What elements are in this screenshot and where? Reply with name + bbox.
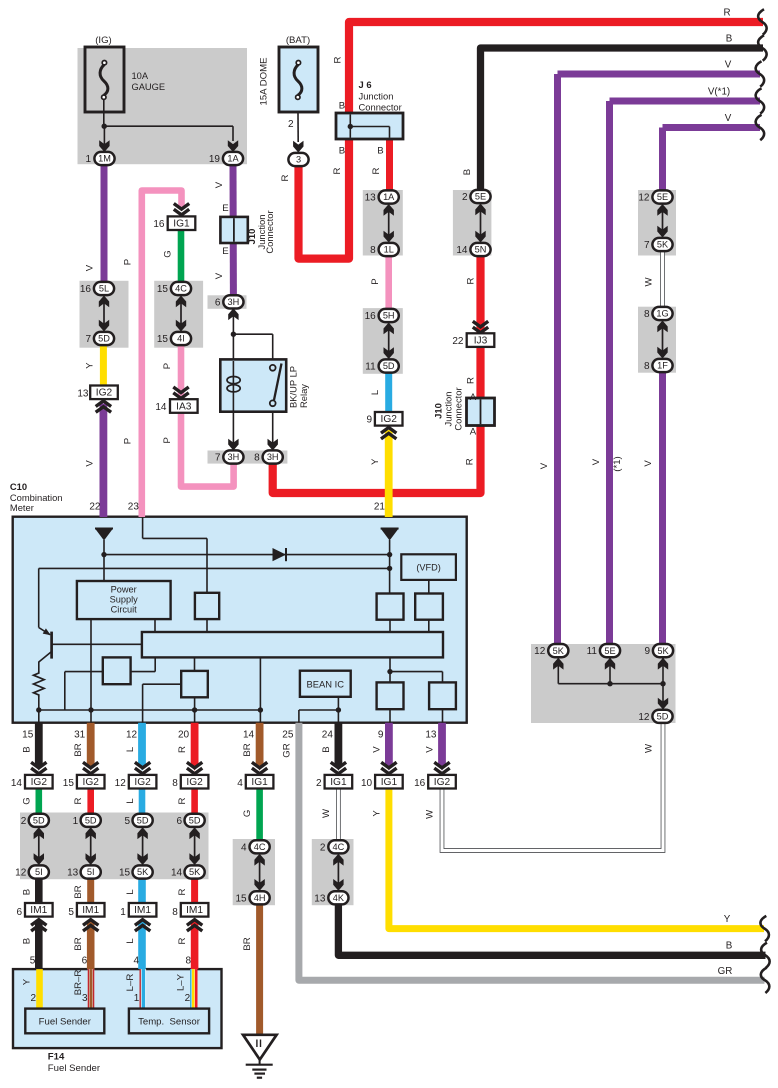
relay coil — [227, 361, 240, 413]
break squiggle wire V — [756, 61, 764, 86]
svg-text:IG2: IG2 — [31, 777, 48, 788]
fuel sender F14 box — [13, 969, 222, 1048]
label B top right — [726, 34, 733, 45]
svg-text:16: 16 — [414, 778, 426, 789]
connector box 13 IG2 — [90, 386, 118, 400]
svg-text:W: W — [425, 809, 436, 819]
label B below IM1 — [21, 938, 32, 944]
C10 box B — [415, 594, 443, 620]
label 13 at 5I/5K — [67, 868, 79, 879]
connector pair 5L/5D arrows — [99, 296, 109, 332]
C10 wire box F to pin 20 — [194, 697, 196, 722]
connector 8 3H — [263, 450, 283, 463]
break squiggle wire B bottom — [761, 943, 769, 968]
svg-text:B: B — [726, 34, 733, 45]
svg-text:BR–R: BR–R — [73, 970, 84, 996]
svg-text:IG2: IG2 — [380, 414, 397, 425]
label 5 at F14 pin — [30, 956, 36, 967]
svg-text:13: 13 — [425, 730, 437, 741]
wire fuse BAT to 3 — [293, 99, 303, 152]
chevron above 16 IG1 — [174, 204, 189, 215]
svg-text:P: P — [370, 278, 381, 284]
svg-text:5I: 5I — [87, 867, 95, 877]
connector 3 — [288, 153, 308, 166]
label P col IA3 — [162, 437, 173, 443]
wire V pin 13 to 16 IG2 — [438, 723, 446, 771]
svg-text:W: W — [321, 808, 332, 818]
connector box 4 IG1 — [246, 775, 274, 789]
svg-text:BK/UP LP: BK/UP LP — [288, 366, 299, 408]
svg-text:W: W — [644, 277, 655, 287]
label 21 pin — [374, 502, 386, 513]
label V top right 2 — [725, 113, 732, 124]
gray panel behind connector 5H/5D — [363, 308, 403, 374]
svg-text:IA3: IA3 — [176, 401, 192, 412]
label BR above IM1 — [73, 885, 84, 898]
svg-text:5D: 5D — [189, 816, 201, 826]
wire W loop from 16 IG2 to 12 5D — [442, 721, 663, 851]
connector 4 4C — [250, 840, 270, 853]
svg-text:5I: 5I — [35, 867, 43, 877]
wire W from 7 5K to 8 1G — [660, 249, 665, 310]
svg-text:L: L — [125, 746, 136, 752]
svg-text:10A: 10A — [132, 71, 149, 81]
label 6 at 5D — [177, 816, 183, 827]
svg-text:5D: 5D — [383, 361, 395, 371]
label BR&#8211;R inside F14 — [73, 970, 84, 996]
connector pair 4C/4I arrows — [176, 296, 186, 332]
svg-text:R: R — [333, 56, 344, 63]
C10 transistor Q1 — [39, 568, 52, 671]
svg-text:9: 9 — [378, 730, 384, 741]
wire BR pin 31 to 15 IG2 — [87, 723, 95, 771]
connector pair 5E/5K right arrows — [657, 204, 667, 238]
svg-text:BR: BR — [73, 885, 84, 898]
label pin 12 — [126, 730, 138, 741]
svg-text:B: B — [377, 146, 383, 157]
connector pair 1A/1L arrows — [384, 204, 394, 243]
label 13 at 4K — [314, 894, 326, 905]
svg-text:5K: 5K — [657, 646, 669, 656]
svg-text:5D: 5D — [657, 712, 669, 722]
connector box 14 IG2 — [25, 775, 53, 789]
connector 2 5D — [29, 814, 49, 827]
svg-text:W: W — [644, 743, 655, 753]
label B below pin — [21, 746, 32, 752]
connector 7 5D — [94, 332, 114, 345]
C10 stub PSC to main bus box — [154, 619, 156, 632]
C10 resistor — [34, 671, 45, 697]
label 13 at 1A — [365, 193, 377, 204]
label BK/UP LP Relay — [288, 366, 310, 408]
label V top right 1 — [725, 60, 732, 71]
wire fuse IG to junction — [103, 99, 105, 127]
label 15A DOME — [259, 58, 270, 106]
svg-text:P: P — [162, 437, 173, 443]
C10 dot pin31 rail — [88, 707, 93, 712]
label pin 24 — [322, 730, 334, 741]
C10 wire PSC down to pin 31 — [90, 619, 92, 723]
svg-text:2: 2 — [462, 192, 468, 203]
label 1 at IM1 — [120, 907, 126, 918]
connector 1 5D — [81, 814, 101, 827]
svg-text:R: R — [177, 797, 188, 804]
svg-text:IG1: IG1 — [330, 777, 347, 788]
label W mid column — [425, 809, 436, 819]
svg-text:11: 11 — [587, 646, 598, 657]
svg-text:14: 14 — [243, 730, 255, 741]
svg-text:16: 16 — [153, 219, 165, 230]
label 9 at 5K bottom — [644, 646, 650, 657]
chevron at C10 pin 13 — [434, 762, 449, 773]
wire L from 12 IG2 to 5 5D — [139, 788, 146, 814]
label GR below pin — [281, 743, 292, 757]
chevron below 6 IM1 — [31, 920, 46, 931]
connector 15 4C — [171, 282, 191, 295]
svg-text:13: 13 — [77, 388, 89, 399]
connector pair 4 4C/15 4H arrows — [254, 854, 264, 891]
wire G from 14 IG2 to 2 5D — [35, 788, 42, 814]
C10 box E — [103, 657, 131, 684]
svg-text:1A: 1A — [227, 154, 239, 164]
label 8 at 1G — [644, 309, 650, 320]
label BR col 14 bottom — [242, 937, 253, 950]
label 8 at 3H — [254, 453, 260, 464]
svg-text:1: 1 — [134, 993, 140, 1004]
svg-text:21: 21 — [374, 502, 386, 513]
label 13 at IG2 — [77, 388, 89, 399]
connector 19 1A — [223, 152, 243, 165]
svg-text:IM1: IM1 — [134, 905, 151, 916]
svg-text:L–Y: L–Y — [176, 973, 187, 991]
label 12 at 5K bottom — [534, 646, 546, 657]
svg-text:2: 2 — [21, 816, 27, 827]
wire R from 8 IM1 to F14 pin 8 — [191, 922, 199, 970]
label 2 at IG box — [316, 778, 322, 789]
chevron at C10 pin 9 — [381, 762, 396, 773]
connector 8 1F — [652, 359, 672, 372]
gray panel behind connectors 7 3H and 8 3H — [208, 451, 288, 464]
svg-text:2: 2 — [320, 843, 326, 854]
label 6 at 3H — [215, 297, 221, 308]
connector box 9 IG2 — [375, 412, 403, 426]
svg-text:Y: Y — [370, 458, 381, 465]
label 16 at IG1 — [153, 219, 165, 230]
C10 stub box G to main bus box — [206, 619, 208, 632]
label Y col1 — [85, 362, 96, 369]
connector 15 4I — [171, 332, 191, 345]
svg-text:B: B — [462, 169, 473, 175]
connector box 6 IM1 — [25, 903, 53, 917]
connector box 10 IG1 — [375, 775, 403, 789]
svg-text:15: 15 — [157, 284, 169, 295]
wire Y from 7 5D to 13 IG2 — [100, 344, 107, 387]
label R mid column — [73, 797, 84, 804]
gray panel behind connector row 5D/5I/5K — [20, 813, 209, 880]
svg-text:22: 22 — [89, 502, 101, 513]
connector pair 1G/1F arrows — [657, 321, 667, 359]
wire B from 12 5I to 6 IM1 — [35, 879, 43, 906]
label pin 31 — [74, 730, 86, 741]
svg-text:R: R — [280, 174, 291, 181]
svg-text:1A: 1A — [383, 192, 395, 202]
svg-text:5E: 5E — [475, 192, 486, 202]
connector pair 5 5D/15 5K arrows — [137, 827, 147, 865]
svg-text:3: 3 — [82, 993, 88, 1004]
connector 6 5D — [185, 814, 205, 827]
connector pair 2 5D/12 5I arrows — [34, 827, 44, 865]
wire junction to 19 1A drop — [104, 126, 233, 141]
break squiggle wire V upper — [756, 115, 764, 140]
svg-text:12: 12 — [15, 868, 27, 879]
svg-text:Supply: Supply — [110, 595, 138, 605]
junction dot under IG fuse — [102, 124, 107, 129]
svg-text:14: 14 — [171, 868, 183, 879]
svg-text:L: L — [370, 389, 381, 395]
svg-text:5H: 5H — [383, 311, 395, 321]
label R below IM1 — [177, 937, 188, 944]
svg-text:2: 2 — [288, 119, 294, 130]
label 15 at IG box — [63, 778, 75, 789]
svg-text:IM1: IM1 — [82, 905, 99, 916]
connector 12 5E — [652, 190, 672, 203]
svg-text:1M: 1M — [98, 154, 111, 164]
C10 second bus — [39, 567, 390, 569]
label 7 at 3H — [215, 453, 221, 464]
dot 5E bus — [607, 681, 612, 686]
junction dot relay branch — [231, 332, 236, 337]
label L below IM1 — [125, 938, 136, 944]
svg-text:V: V — [85, 264, 96, 271]
svg-text:R: R — [332, 167, 343, 174]
C10 stub VFD to box B — [428, 580, 430, 594]
label 1 inner pin — [134, 993, 140, 1004]
label R below J6 right — [371, 167, 382, 174]
svg-text:25: 25 — [282, 730, 294, 741]
C10 dot pin14 rail — [258, 707, 263, 712]
C10 junction dot on 22 line — [101, 552, 106, 557]
svg-text:Temp. Sensor: Temp. Sensor — [138, 1017, 201, 1028]
svg-text:13: 13 — [67, 868, 79, 879]
svg-text:24: 24 — [322, 730, 334, 741]
label V col1 lower — [85, 460, 96, 467]
break squiggle wire Y — [760, 916, 768, 941]
svg-text:IG1: IG1 — [381, 777, 398, 788]
break squiggle wire R — [758, 9, 766, 34]
svg-text:Meter: Meter — [10, 502, 34, 513]
svg-text:A: A — [470, 392, 477, 403]
svg-text:5: 5 — [125, 816, 131, 827]
wire relay contact line down to 8 3H — [268, 406, 278, 451]
chevron below 8 IM1 — [187, 920, 202, 931]
label R mid column — [177, 797, 188, 804]
wire BR from 13 5I to 5 IM1 — [87, 879, 94, 906]
temp sensor inner box — [129, 1009, 209, 1034]
svg-text:5L: 5L — [99, 284, 109, 294]
wire G from 4 IG1 to 4 4C — [256, 788, 263, 841]
wire P long from top elbow to C10 pin 23 — [142, 191, 185, 518]
junction connector J10 box right — [467, 398, 495, 426]
chevron below 13 IG2 — [96, 401, 111, 412]
svg-text:Fuel Sender: Fuel Sender — [48, 1063, 101, 1074]
label 23 pin — [128, 502, 140, 513]
connector pair 5H/5D arrows — [384, 323, 394, 360]
connector 2 4C — [328, 840, 348, 853]
svg-text:13: 13 — [314, 894, 326, 905]
label J10 right rotated — [433, 387, 464, 430]
svg-text:1: 1 — [85, 154, 91, 165]
C10 entry diode pin 22 — [95, 529, 113, 541]
connector 13 5I — [81, 865, 101, 878]
arrow into 1 1M — [99, 127, 109, 152]
wire Y from 9 IG2 to C10 pin 21 — [385, 430, 393, 517]
label BR below IM1 — [73, 937, 84, 950]
label 15 at 4C — [157, 284, 169, 295]
wire V from 13 IG2 to C10 pin 22 — [100, 404, 108, 518]
svg-text:IG2: IG2 — [82, 777, 99, 788]
wire L from 11 5D to 9 IG2 — [385, 373, 392, 413]
svg-text:B: B — [726, 941, 733, 952]
svg-text:IG2: IG2 — [186, 777, 203, 788]
label 10A GAUGE — [132, 71, 166, 92]
svg-text:7: 7 — [85, 334, 91, 345]
svg-text:7: 7 — [215, 453, 221, 464]
C10 step box E to main bus box — [131, 657, 156, 671]
svg-text:8: 8 — [644, 309, 650, 320]
connector pair 5E/5N arrows — [475, 204, 485, 243]
svg-text:E: E — [222, 203, 228, 214]
arrow into 9 5K — [658, 658, 668, 670]
arrow into 12 5D — [658, 698, 668, 710]
svg-text:V: V — [85, 460, 96, 467]
C10 bus with diode to 21 line — [104, 554, 390, 556]
svg-text:(IG): (IG) — [95, 35, 112, 46]
svg-text:23: 23 — [128, 502, 140, 513]
label F14 Fuel Sender — [48, 1051, 101, 1074]
dot 5K bus — [660, 681, 665, 686]
connector box 8 IG2 — [181, 775, 209, 789]
svg-text:V: V — [539, 462, 550, 469]
label W col 662 — [644, 277, 655, 287]
fuse 15A DOME (BAT) — [279, 47, 318, 112]
wire L pin 12 to 12 IG2 — [138, 723, 146, 771]
svg-text:8: 8 — [370, 245, 376, 256]
svg-text:12: 12 — [534, 646, 546, 657]
wire B pin 15 to 14 IG2 — [35, 723, 43, 771]
label 2 fuse BAT — [288, 119, 294, 130]
chevron below 9 IG2 — [381, 428, 396, 439]
connector box 22 IJ3 — [467, 333, 495, 347]
connector 15 5K — [133, 865, 153, 878]
label 16 at 5L — [80, 284, 92, 295]
wire V column to 12 5K — [558, 74, 761, 645]
label 22 pin — [89, 502, 101, 513]
C10 diode on bus — [273, 548, 287, 561]
C10 wire pin 14 to main bus box — [259, 657, 261, 722]
C10 transistor base line — [52, 643, 142, 645]
svg-text:L: L — [125, 938, 136, 944]
connector box 5 IM1 — [77, 903, 105, 917]
svg-text:R: R — [177, 746, 188, 753]
connector 13 4K — [328, 891, 348, 904]
wire B pin 24 to 2 IG1 — [335, 723, 343, 771]
svg-text:(VFD): (VFD) — [416, 563, 441, 573]
label 7 at 5D — [85, 334, 91, 345]
C10 box C — [377, 682, 404, 709]
svg-text:2: 2 — [30, 993, 36, 1004]
break squiggle wire B — [758, 35, 766, 60]
label G mid column — [242, 810, 253, 817]
label 16 at IG box — [414, 778, 426, 789]
combination meter C10 box — [13, 517, 467, 723]
wire R from 8 IG2 to 6 5D — [191, 788, 198, 814]
svg-text:R: R — [371, 167, 382, 174]
svg-text:15: 15 — [235, 894, 247, 905]
label B below pin — [321, 746, 332, 752]
wire R branch from J6 to 13 1A — [386, 137, 393, 191]
svg-text:J 6: J 6 — [359, 79, 372, 90]
C10 wire 21 vertical — [389, 540, 391, 594]
label pin 25 — [282, 730, 294, 741]
svg-text:Circuit: Circuit — [111, 605, 137, 615]
svg-text:11: 11 — [365, 362, 376, 373]
label 22 at IJ3 — [452, 336, 464, 347]
label E col 1A above J10 — [222, 203, 228, 214]
label J 6 Junction Connector — [359, 79, 402, 113]
chevron above 22 IJ3 — [473, 321, 488, 332]
label 14 at IG box — [11, 778, 23, 789]
label 7 at 5K right — [644, 240, 650, 251]
C10 box A — [377, 594, 404, 620]
svg-text:Relay: Relay — [298, 384, 309, 408]
label 2 inner pin — [185, 993, 191, 1004]
connector 11 5D — [379, 359, 399, 372]
connector box 8 IM1 — [181, 903, 209, 917]
svg-text:16: 16 — [365, 311, 377, 322]
C10 wire pin 25 link — [299, 710, 339, 723]
label 12 at 5E right — [638, 193, 650, 204]
svg-text:31: 31 — [74, 730, 86, 741]
label P pink lower — [123, 438, 134, 444]
label W mid column — [321, 808, 332, 818]
label 3 inner pin — [82, 993, 88, 1004]
fuel sender inner box — [25, 1009, 104, 1034]
gray panel behind connector 6 3H — [208, 295, 247, 309]
label G col 4C — [163, 250, 174, 257]
svg-text:15: 15 — [119, 868, 131, 879]
chevron above 14 IA3 — [173, 387, 188, 398]
svg-text:L–R: L–R — [125, 974, 136, 992]
wire L-R inside fuel sender box — [140, 969, 143, 1009]
svg-text:V: V — [591, 458, 602, 465]
label V col 1M — [85, 264, 96, 271]
svg-text:8: 8 — [644, 361, 650, 372]
label 2 at 4C right — [320, 843, 326, 854]
svg-text:B: B — [21, 938, 32, 944]
C10 main bus box — [142, 632, 443, 657]
label 15 at 5I/5K — [119, 868, 131, 879]
svg-text:Connector: Connector — [453, 387, 464, 430]
svg-text:3H: 3H — [228, 452, 240, 462]
connector 15 4H — [250, 891, 270, 904]
svg-text:IG2: IG2 — [434, 777, 451, 788]
label 4 at IG box — [237, 778, 243, 789]
svg-text:4: 4 — [241, 843, 247, 854]
svg-text:15: 15 — [63, 778, 75, 789]
connector 12 5I — [29, 865, 49, 878]
label pin 14 — [243, 730, 255, 741]
label 6 at F14 pin — [82, 956, 88, 967]
